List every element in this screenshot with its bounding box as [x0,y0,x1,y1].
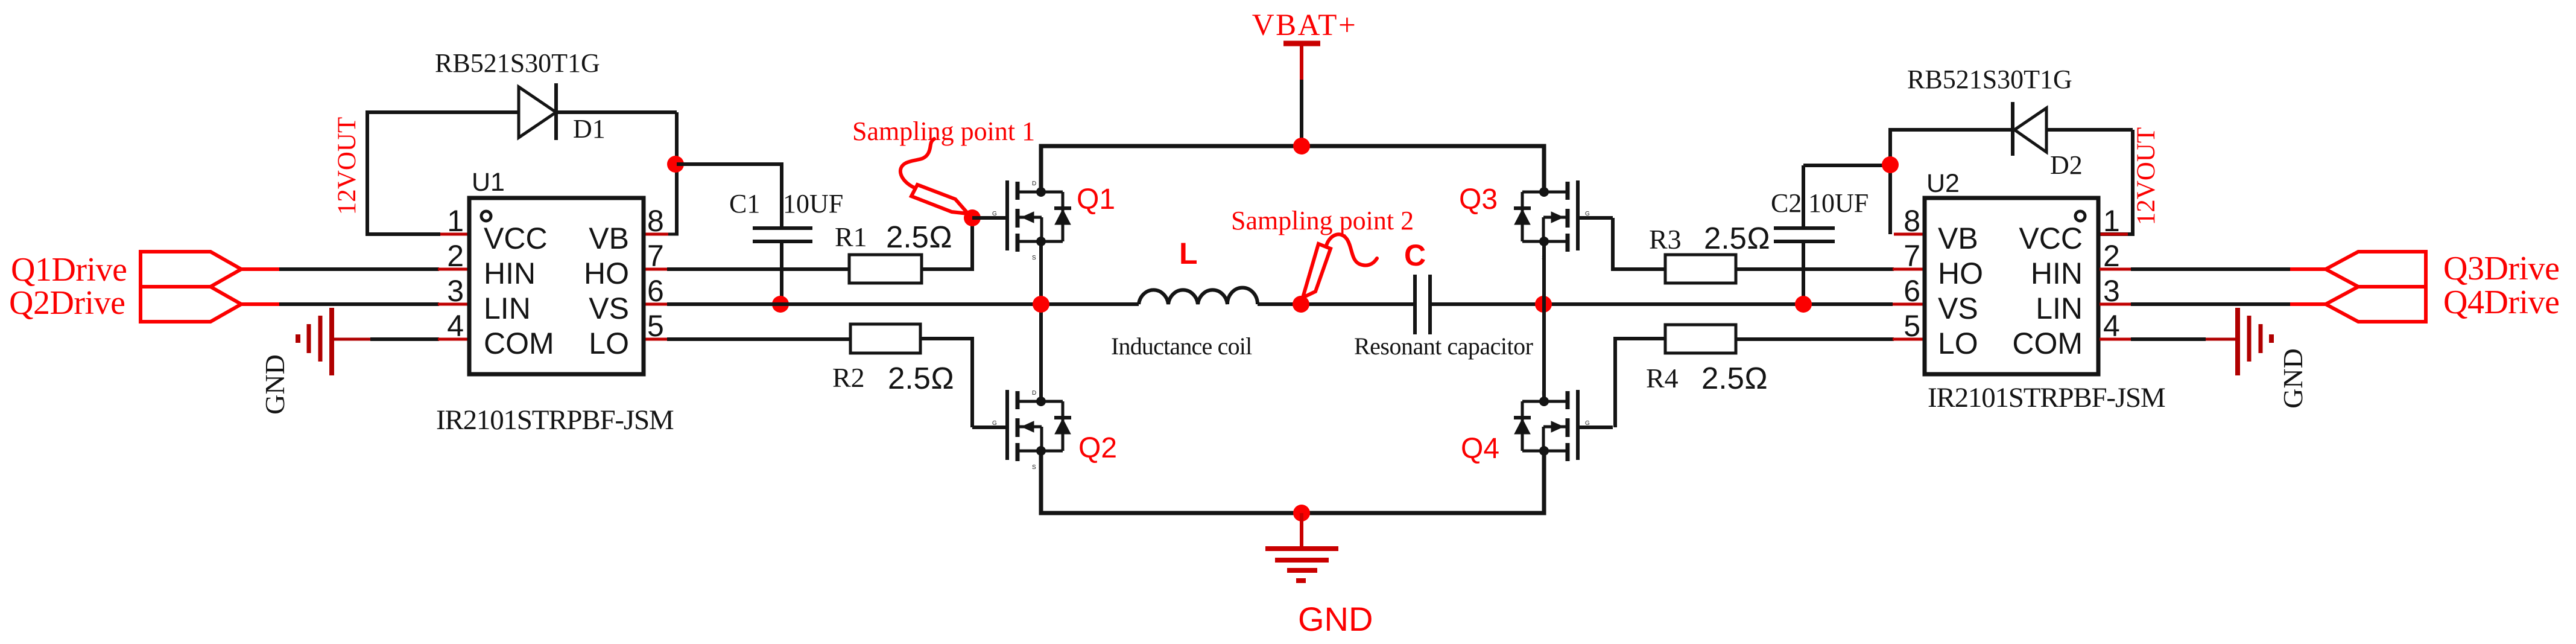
svg-text:HIN: HIN [484,257,536,290]
svg-text:COM: COM [2012,327,2083,360]
svg-text:7: 7 [647,239,664,273]
power VBAT+ [1283,41,1320,46]
ground GND right [2206,308,2271,375]
svg-text:D1: D1 [573,114,606,144]
wire gate Q2 [972,426,1007,429]
wire gate Q4 [1578,426,1613,429]
svg-text:8: 8 [647,204,664,238]
wire C1 branch [677,164,782,228]
wire pin7 HO to R1 [644,268,668,271]
wire pin5 LO to R2 [644,338,668,341]
svg-text:6: 6 [647,274,664,308]
svg-text:COM: COM [484,327,554,360]
wire HIN input [279,267,439,271]
wire pin3 LIN U2 to connector [2100,303,2131,306]
wire pin4 COM U2 to ground [2100,338,2131,341]
svg-text:IR2101STRPBF-JSM: IR2101STRPBF-JSM [1928,382,2165,413]
node VB U2 junction [1882,156,1899,173]
svg-text:6: 6 [1904,274,1920,308]
svg-text:Q2: Q2 [1078,432,1117,464]
wire gate Q1 [972,216,1007,220]
svg-text:HO: HO [1938,257,1983,290]
wire Q4 gate to R4 [1615,339,1665,427]
svg-text:Q2Drive: Q2Drive [9,284,125,322]
svg-text:VCC: VCC [484,222,548,255]
wire D1 to pin8 [675,112,679,234]
svg-text:2.5Ω: 2.5Ω [886,220,952,254]
svg-text:HIN: HIN [2031,257,2083,290]
wire COM input [370,337,439,341]
svg-text:GND: GND [2277,348,2308,409]
svg-text:U1: U1 [472,168,505,197]
svg-text:Q3Drive: Q3Drive [2443,250,2559,287]
svg-text:Inductance coil: Inductance coil [1111,333,1252,360]
wire gate Q3 [1578,216,1613,220]
connector Q4Drive [2326,287,2426,322]
probe sampling point 2 [1303,234,1377,298]
svg-text:D: D [1542,390,1546,397]
IC U2 [1925,198,2098,374]
svg-text:5: 5 [647,309,664,343]
svg-text:VCC: VCC [2019,222,2083,255]
svg-text:10UF: 10UF [783,189,843,218]
transistor Q2 [1007,304,1071,461]
diode D2 [2013,102,2133,156]
svg-text:7: 7 [1904,239,1920,273]
svg-text:R3: R3 [1649,224,1682,255]
wire R4 to pin5 U2 [1736,337,1894,341]
svg-text:VB: VB [589,222,629,255]
svg-text:HO: HO [584,257,629,290]
wire D2 to pin1 U2 [2100,130,2133,234]
svg-text:C2: C2 [1771,188,1802,218]
svg-text:RB521S30T1G: RB521S30T1G [435,48,600,78]
svg-text:U2: U2 [1926,169,1960,198]
svg-text:VS: VS [589,292,629,325]
svg-text:LO: LO [589,327,629,360]
svg-text:L: L [1179,237,1198,270]
svg-text:10UF: 10UF [1808,188,1869,218]
wire L to sampling point 2 [1258,302,1415,306]
svg-text:Q4: Q4 [1461,433,1499,465]
svg-text:3: 3 [447,274,464,308]
diode D1 [519,83,677,140]
svg-text:12VOUT: 12VOUT [2132,127,2160,225]
svg-text:D2: D2 [2050,150,2083,180]
transistor Q1 [1007,146,1071,304]
svg-text:G: G [992,211,997,217]
node sampling point 2 [1293,296,1309,313]
connector Q2Drive [141,287,241,322]
svg-text:12VOUT: 12VOUT [333,117,361,215]
svg-text:GND: GND [259,354,290,415]
svg-text:1: 1 [447,204,464,238]
wire VS rail to pin6 U2 [1893,303,1925,306]
svg-text:2.5Ω: 2.5Ω [888,361,954,395]
resistor R2 [850,324,920,353]
wire D2 loop left [1890,130,2013,234]
svg-text:S: S [1542,464,1546,471]
wire Q3 gate to R3 [1613,218,1665,269]
capacitor C resonant [1415,275,1893,334]
svg-text:Q4Drive: Q4Drive [2443,284,2559,321]
node VS C2 junction [1795,296,1812,313]
svg-text:VBAT+: VBAT+ [1252,8,1357,42]
svg-text:2.5Ω: 2.5Ω [1701,361,1768,395]
svg-text:S: S [1542,255,1546,261]
svg-text:Sampling point 1: Sampling point 1 [852,116,1035,146]
svg-text:IR2101STRPBF-JSM: IR2101STRPBF-JSM [436,404,674,436]
wire pin8 stub U2 [1894,233,1925,236]
svg-text:VS: VS [1938,292,1978,325]
inductor L [1139,288,1258,304]
svg-text:R4: R4 [1646,363,1679,394]
wire top rail [1041,146,1544,192]
svg-text:2: 2 [447,239,464,273]
svg-text:LIN: LIN [484,292,531,325]
connector Q3Drive [2326,252,2426,287]
pin indicator circle U1 [481,211,491,221]
ground GND bottom [1265,513,1338,581]
svg-text:R1: R1 [835,222,867,252]
connector Q1Drive [141,252,241,287]
svg-text:Resonant capacitor: Resonant capacitor [1354,333,1533,360]
svg-text:1: 1 [2103,204,2120,238]
svg-text:C1: C1 [729,189,760,218]
node VS C1 junction [772,296,789,313]
svg-text:Q3: Q3 [1459,183,1498,215]
wire R2 to Q2 gate [920,339,972,427]
svg-text:4: 4 [447,309,464,343]
wire R1 to Q1 gate [922,218,972,269]
pin indicator circle U2 [2075,211,2085,221]
node GND junction [1293,505,1310,521]
node Q1 gate [964,209,981,226]
IC U1 [469,198,644,374]
wire R3 to pin7 U2 [1736,267,1894,271]
wire pin2 HIN U2 to connector [2100,268,2131,271]
node VBAT junction [1293,138,1310,155]
svg-text:GND: GND [1298,600,1373,638]
svg-text:S: S [1032,464,1036,471]
svg-text:LIN: LIN [2036,292,2083,325]
svg-text:RB521S30T1G: RB521S30T1G [1907,65,2072,94]
wire Q1Drive red stub [241,267,279,271]
probe sampling point 1 [900,139,968,214]
wire Q2Drive red stub [241,302,279,306]
capacitor C1 [753,228,812,304]
svg-text:VB: VB [1938,222,1978,255]
wire bottom rail [1041,451,1544,513]
node bridge right mid [1535,296,1552,313]
svg-text:Q1: Q1 [1077,183,1115,215]
node bridge left mid [1033,296,1049,313]
node VB junction [667,156,684,173]
svg-text:D: D [1032,390,1036,397]
svg-text:Sampling point 2: Sampling point 2 [1231,206,1414,235]
svg-text:R2: R2 [832,362,865,393]
12VOUT loop wire U1 [367,112,519,234]
resistor R1 [849,255,922,283]
svg-text:D: D [1032,180,1036,187]
wire pin stubs U1 left [438,234,469,339]
resistor R3 [1665,255,1736,283]
ground GND left [298,308,370,375]
svg-text:C: C [1404,238,1426,272]
svg-text:S: S [1032,255,1036,261]
transistor Q3 [1514,180,1578,304]
wire pin6 VS rail [644,303,668,306]
svg-text:5: 5 [1904,309,1920,343]
transistor Q4 [1514,304,1578,461]
capacitor C2 [1774,165,1890,304]
svg-text:8: 8 [1904,204,1920,238]
wire LIN input [279,302,439,306]
resistor R4 [1665,325,1736,353]
svg-text:2.5Ω: 2.5Ω [1704,221,1770,255]
svg-text:LO: LO [1938,327,1978,360]
svg-text:Q1Drive: Q1Drive [11,251,127,289]
svg-text:D: D [1542,180,1546,187]
